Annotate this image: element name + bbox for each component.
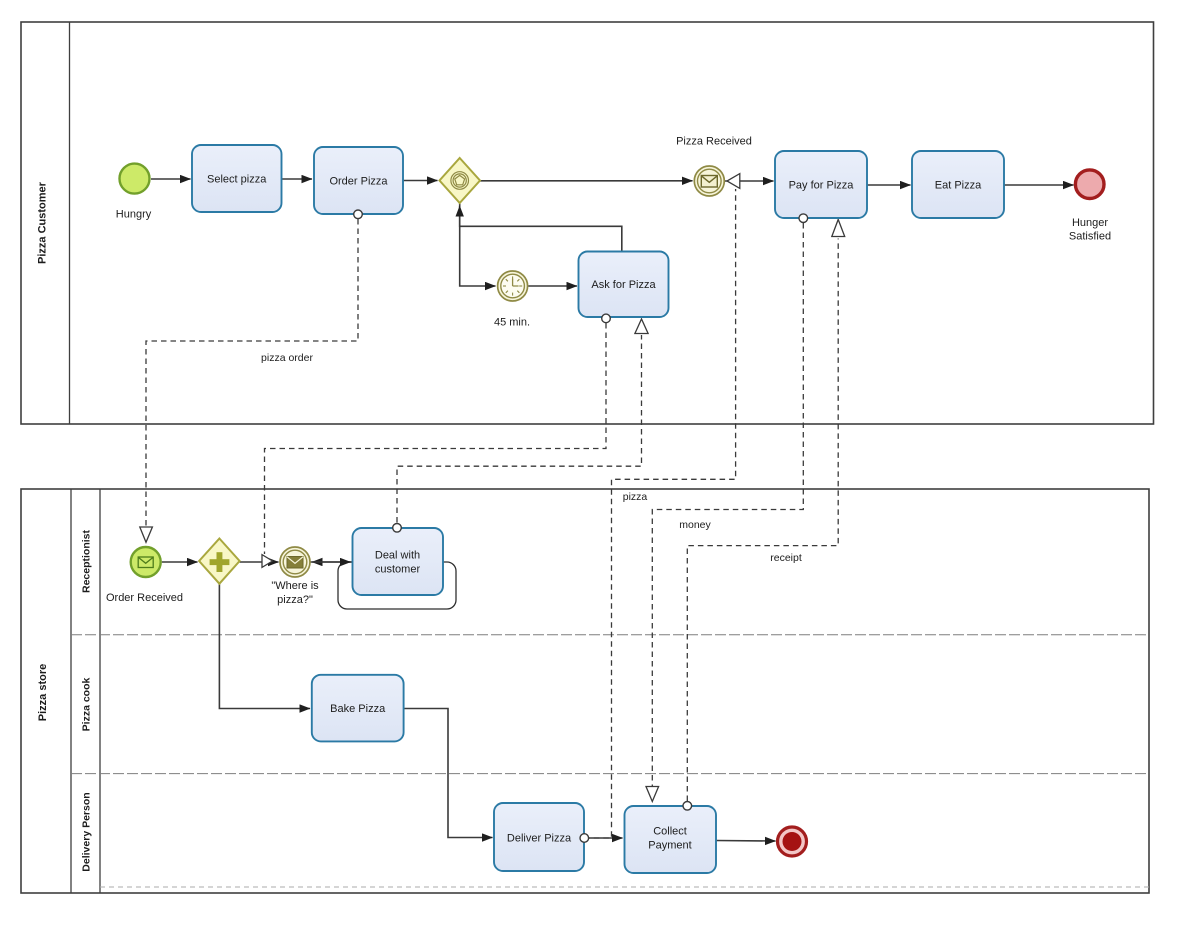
- pool Pizza Customer: [21, 22, 1154, 424]
- pool Pizza store: [21, 489, 1149, 893]
- sequence flow Deal with customer to Where is pizza event: [312, 561, 352, 563]
- svg-text:customer: customer: [375, 564, 421, 576]
- svg-text:Select pizza: Select pizza: [207, 174, 267, 186]
- svg-text:Satisfied: Satisfied: [1069, 231, 1111, 243]
- svg-text:Bake Pizza: Bake Pizza: [330, 703, 386, 715]
- task Deliver Pizza: [494, 803, 584, 871]
- svg-text:Pizza store: Pizza store: [37, 664, 49, 721]
- start event Hungry: [116, 164, 152, 221]
- sequence flow Collect Payment to terminate end: [716, 840, 776, 843]
- end event Hunger Satisfied: [1069, 170, 1111, 243]
- svg-text:Deliver Pizza: Deliver Pizza: [507, 833, 572, 845]
- svg-text:Receptionist: Receptionist: [81, 529, 93, 593]
- lane Delivery Person: [81, 792, 1150, 887]
- svg-text:Pizza Customer: Pizza Customer: [37, 181, 49, 264]
- sequence flow Deliver Pizza to Collect Payment: [585, 837, 623, 839]
- message flow receipt (Collect Payment to Pay for Pizza): [687, 220, 844, 802]
- svg-text:pizza: pizza: [623, 491, 648, 503]
- message anchor circle on Collect Payment: [683, 802, 692, 811]
- event-based gateway: [440, 158, 481, 203]
- svg-text:Payment: Payment: [648, 840, 691, 852]
- svg-text:Delivery Person: Delivery Person: [81, 792, 93, 871]
- task Order Pizza: [314, 147, 403, 214]
- task Pay for Pizza: [775, 151, 867, 218]
- svg-text:receipt: receipt: [770, 552, 802, 564]
- sequence flow Where is pizza event to Deal with customer: [311, 561, 351, 563]
- sequence flow parallel gateway to Bake Pizza: [219, 584, 310, 709]
- intermediate message throw event Where is pizza: [271, 547, 319, 606]
- svg-text:Order Received: Order Received: [106, 592, 183, 604]
- message anchor circle on Deal with customer: [393, 524, 402, 533]
- svg-text:Pizza Received: Pizza Received: [676, 136, 752, 148]
- task Deal with customer: [353, 528, 444, 595]
- message anchor circle on Ask for Pizza: [602, 314, 611, 323]
- svg-text:Pizza cook: Pizza cook: [81, 677, 93, 731]
- svg-text:45 min.: 45 min.: [494, 317, 530, 329]
- task Bake Pizza: [312, 675, 404, 742]
- svg-text:pizza?": pizza?": [277, 594, 313, 606]
- lane Receptionist: [71, 529, 1149, 634]
- sequence flow Hungry to Select pizza: [151, 178, 191, 180]
- sequence flow timer to Ask for Pizza: [528, 285, 577, 287]
- intermediate timer event 45 min.: [494, 271, 530, 329]
- message flow pizza order: [140, 219, 358, 542]
- svg-text:pizza order: pizza order: [261, 352, 313, 364]
- message anchor circle on Order Pizza: [354, 210, 363, 219]
- message anchor circle on Pay for Pizza: [799, 214, 808, 223]
- svg-text:Ask for Pizza: Ask for Pizza: [591, 279, 656, 291]
- message flow pizza (Deliver Pizza to Pizza Received): [584, 174, 740, 838]
- sequence flow Order Pizza to gateway: [404, 180, 438, 182]
- message flow Ask for Pizza to Where is pizza event: [262, 323, 606, 567]
- svg-text:Deal with: Deal with: [375, 550, 420, 562]
- loop path around Deal with customer: [338, 562, 456, 609]
- svg-text:Pay for Pizza: Pay for Pizza: [789, 180, 855, 192]
- lane Pizza cook: [71, 677, 1149, 773]
- sequence flow Select pizza to Order Pizza: [282, 178, 312, 180]
- task Ask for Pizza: [579, 252, 669, 318]
- svg-text:Order Pizza: Order Pizza: [329, 176, 388, 188]
- message flow money (Pay for Pizza to Collect Payment): [646, 223, 803, 802]
- sequence flow gateway to Pizza Received: [480, 180, 693, 182]
- svg-text:money: money: [679, 519, 711, 531]
- sequence flow parallel gateway to Where is pizza event: [240, 561, 279, 563]
- task Collect Payment: [625, 806, 717, 873]
- intermediate message catch event Pizza Received: [676, 136, 752, 197]
- message anchor circle on Deliver Pizza: [580, 834, 589, 843]
- svg-text:Collect: Collect: [653, 826, 687, 838]
- svg-text:"Where is: "Where is: [271, 580, 319, 592]
- svg-text:Hunger: Hunger: [1072, 217, 1108, 229]
- task Eat Pizza: [912, 151, 1004, 218]
- sequence flow gateway to timer: [460, 203, 496, 286]
- sequence flow Pay for Pizza to Eat Pizza: [867, 184, 911, 186]
- sequence flow Eat Pizza to Hunger Satisfied: [1004, 184, 1074, 186]
- task Select pizza: [192, 145, 282, 212]
- svg-text:Hungry: Hungry: [116, 209, 152, 221]
- sequence flow Order Received to parallel gateway: [162, 561, 198, 563]
- sequence flow Ask for Pizza loop back to gateway: [460, 206, 622, 251]
- sequence flow Bake Pizza to Deliver Pizza: [404, 709, 493, 838]
- terminate end event: [778, 827, 807, 856]
- message start event Order Received: [106, 547, 183, 604]
- parallel gateway: [199, 539, 240, 584]
- sequence flow Pizza Received to Pay for Pizza: [725, 180, 774, 182]
- message flow Deal with customer to Ask for Pizza: [397, 319, 648, 523]
- svg-text:Eat Pizza: Eat Pizza: [935, 180, 982, 192]
